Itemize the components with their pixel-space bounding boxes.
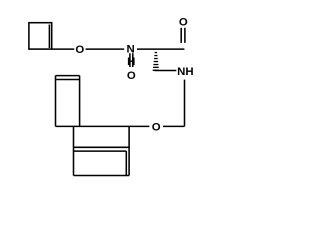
hashed wedge bond	[153, 52, 159, 71]
cyclobutene ring	[29, 23, 52, 49]
ring top edge long horizontal	[56, 125, 130, 127]
atom labels	[75, 17, 193, 134]
svg-text:H: H	[127, 56, 135, 68]
upper rect double bond inner line	[56, 79, 79, 81]
N=O double bond	[129, 53, 131, 67]
inner double bond vertical	[125, 151, 127, 175]
wire N to carbonyl C	[137, 48, 184, 50]
inner double bond line B	[74, 150, 127, 152]
wire O1 to N	[86, 48, 125, 50]
wire O4 to ring system	[130, 125, 150, 127]
cyclobutene double bond inner line	[48, 25, 50, 49]
svg-text:O: O	[127, 70, 136, 82]
ring fusion chord	[74, 146, 130, 148]
svg-text:N: N	[126, 44, 134, 56]
wire corner to O4	[163, 125, 185, 127]
svg-text:O: O	[179, 17, 188, 29]
wire CH2 to NH	[155, 70, 177, 72]
wire ring to O1	[52, 48, 74, 50]
upper rect ring	[55, 76, 57, 127]
svg-text:O: O	[75, 44, 84, 56]
wire NH down	[184, 80, 186, 127]
svg-text:NH: NH	[177, 66, 193, 78]
lower rect ring	[73, 126, 75, 175]
svg-text:O: O	[152, 121, 161, 133]
C=O double bond	[180, 28, 182, 43]
